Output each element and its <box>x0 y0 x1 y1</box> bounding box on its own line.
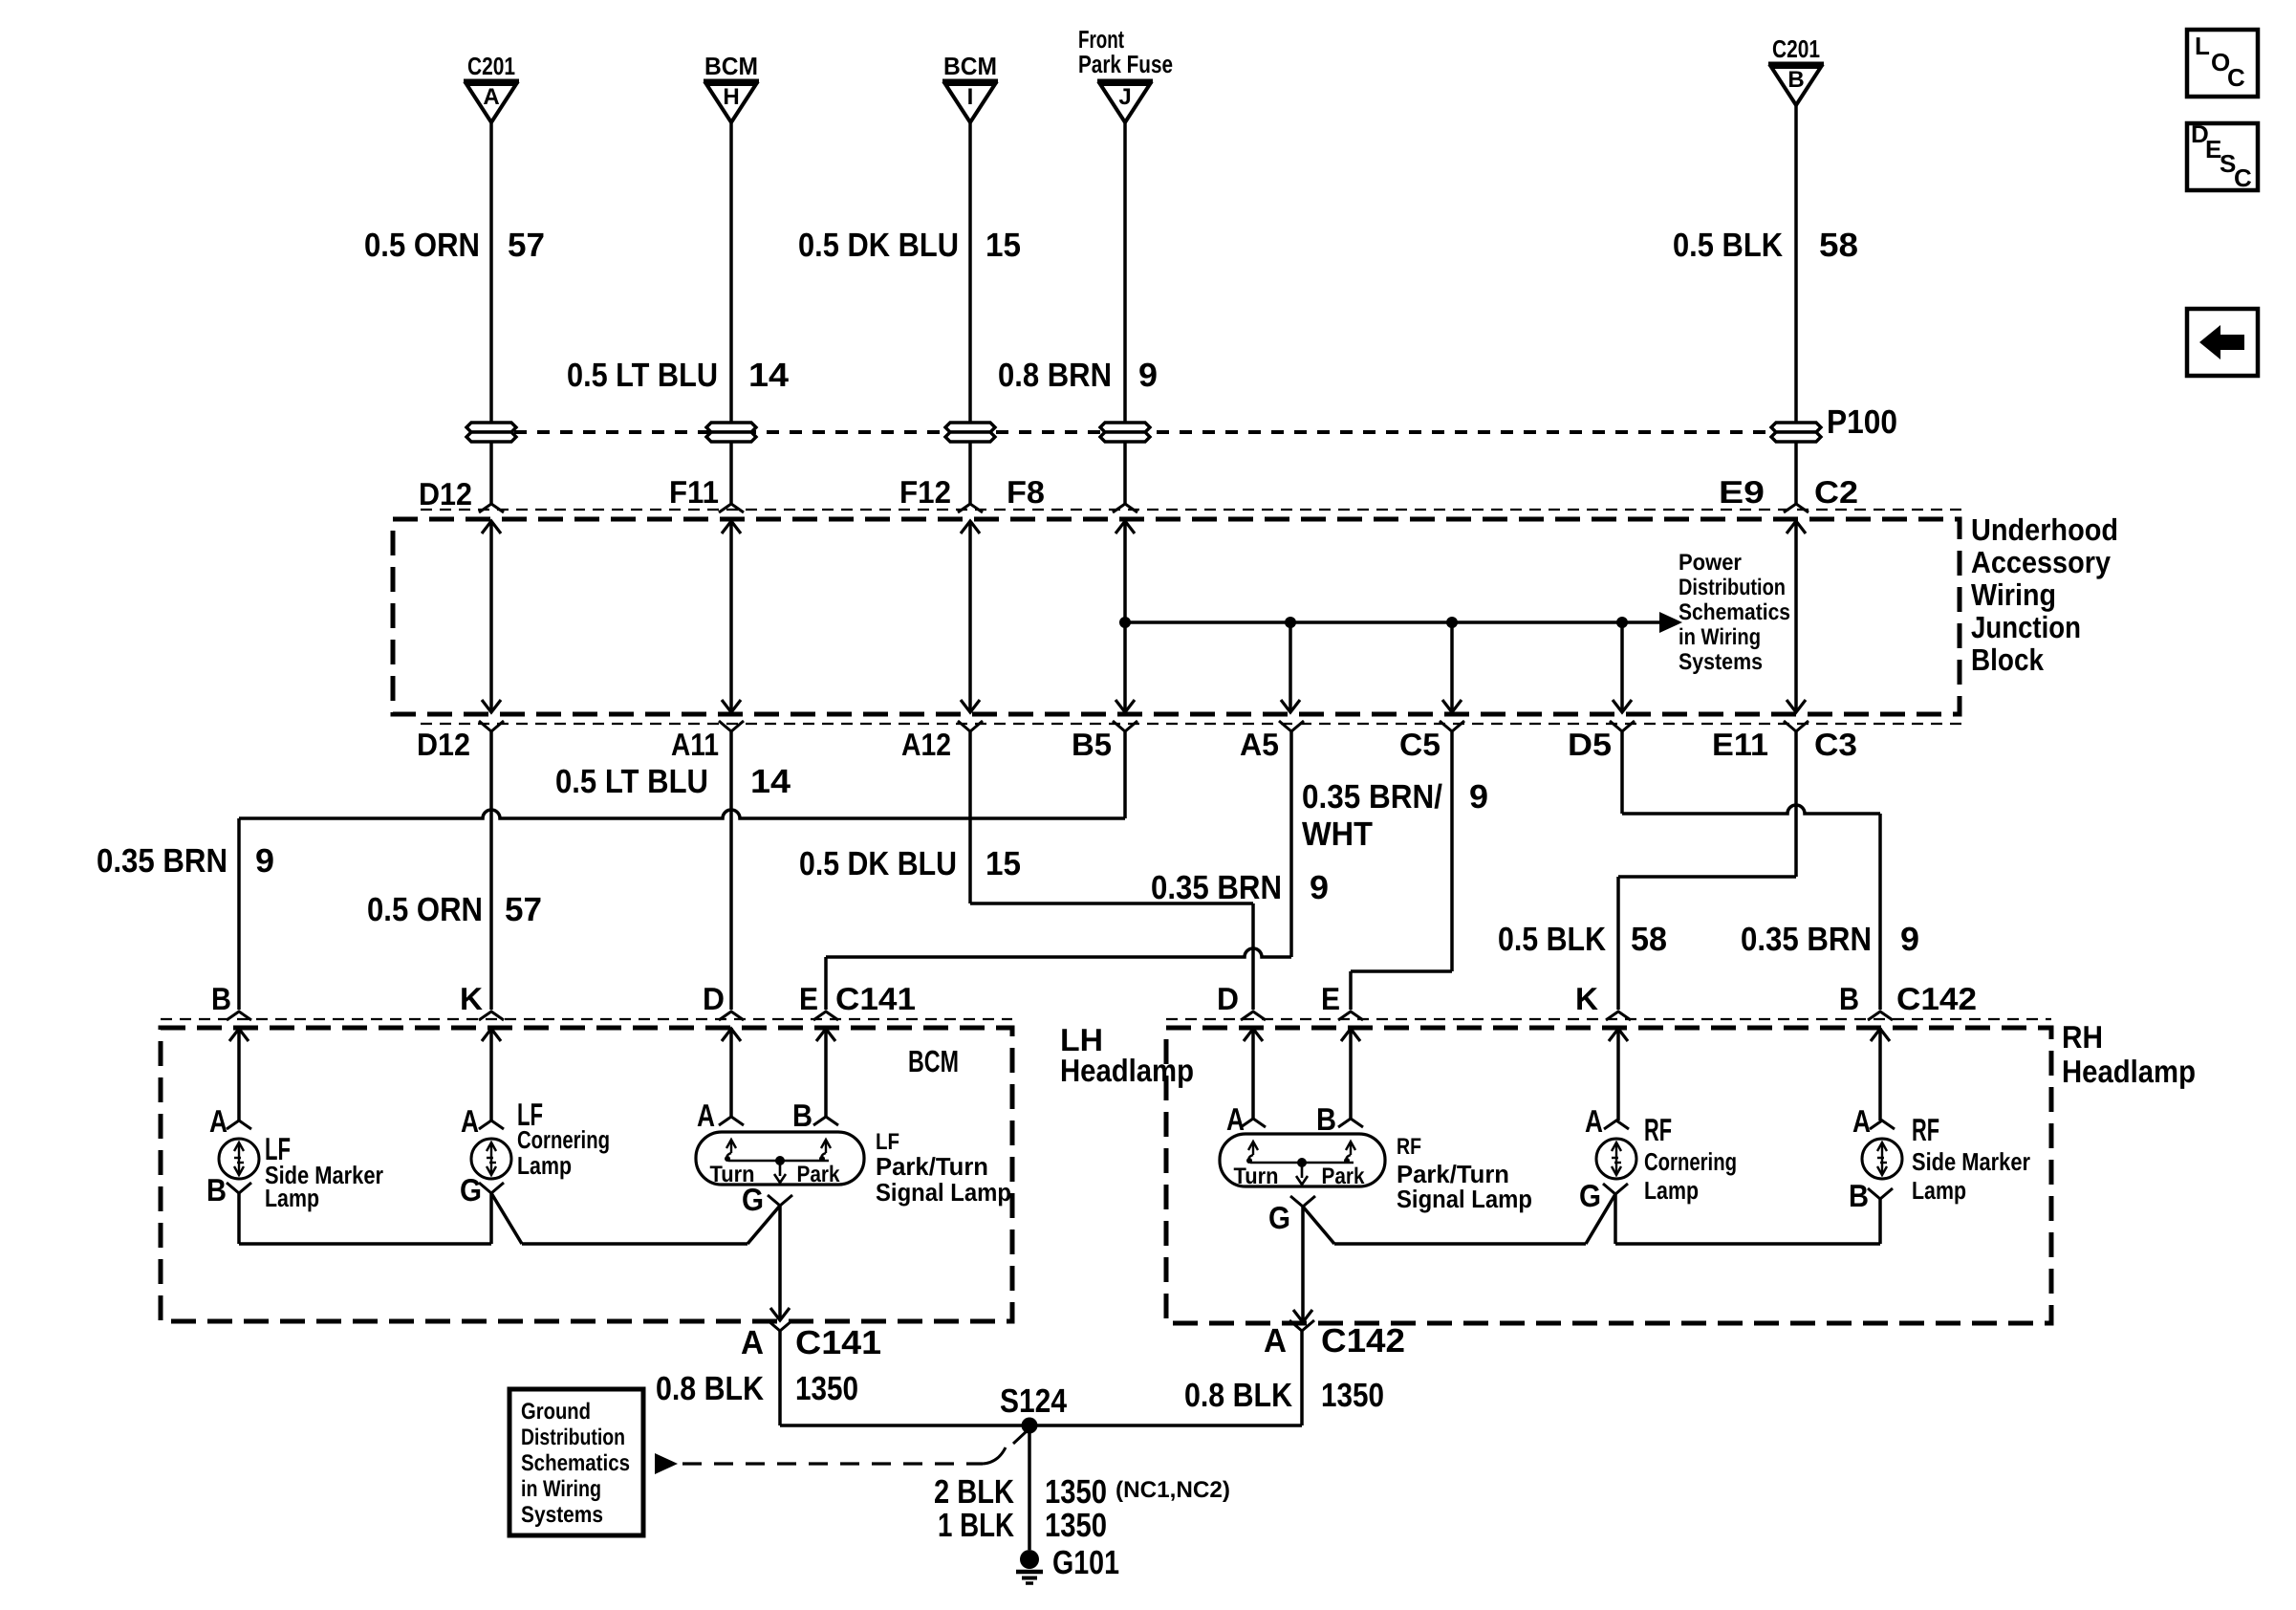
svg-text:BCM: BCM <box>908 1044 959 1078</box>
svg-text:F12: F12 <box>899 474 951 510</box>
junction block top connector dashed line <box>421 509 1963 511</box>
svg-text:A5: A5 <box>1240 727 1279 762</box>
svg-text:Wiring: Wiring <box>1971 577 2056 612</box>
wire 0.8 BLK 1350 from C141-A to S124 <box>780 1331 1029 1425</box>
svg-text:C2: C2 <box>1814 474 1858 510</box>
junction dot C5 <box>1446 617 1458 628</box>
svg-text:K: K <box>460 981 483 1016</box>
svg-text:RH: RH <box>2062 1019 2103 1055</box>
svg-text:I: I <box>967 84 974 110</box>
svg-text:Distribution: Distribution <box>521 1425 625 1450</box>
connector chevron at cavity B5 (block bottom) <box>1113 721 1137 731</box>
svg-text:9: 9 <box>1310 869 1329 906</box>
LOC button box <box>2187 30 2258 97</box>
wire 1 BLK 1350 from S124 to G101 <box>1028 1425 1031 1550</box>
svg-text:LF: LF <box>876 1129 899 1155</box>
LH ground bus wiring <box>239 1193 780 1244</box>
svg-text:Headlamp: Headlamp <box>2062 1054 2196 1089</box>
svg-text:0.5 LT BLU: 0.5 LT BLU <box>567 357 718 394</box>
svg-text:B: B <box>792 1098 812 1133</box>
wire 0.5 DK BLU 15 from BCM-I to P100 <box>968 122 972 422</box>
label 0.5 BLK 58 (mid) <box>1498 921 1667 958</box>
junction block feed-through F8-B5 <box>1116 521 1135 712</box>
connector chevron at cavity D5 (block bottom) <box>1610 721 1635 731</box>
connector chevron at cavity E11 (block bottom) <box>1784 721 1809 731</box>
connector C201 cavity A (triangle) <box>464 52 519 122</box>
svg-text:9: 9 <box>255 842 274 880</box>
svg-text:F11: F11 <box>669 474 719 510</box>
svg-text:B: B <box>1849 1178 1869 1213</box>
svg-text:0.5 DK BLU: 0.5 DK BLU <box>798 227 959 264</box>
wire 0.5 DK BLU 15 A12 to RH headlamp D <box>970 731 1253 1010</box>
label 0.5 LT BLU 14 <box>567 357 790 394</box>
label 2 BLK 1350 (NC1,NC2) <box>934 1473 1230 1511</box>
ground distribution reference dashed pointer to S124 <box>655 1431 1027 1474</box>
svg-text:A: A <box>461 1103 479 1139</box>
svg-text:C141: C141 <box>835 981 916 1016</box>
svg-text:B: B <box>1787 67 1804 93</box>
svg-text:B: B <box>1839 981 1859 1016</box>
svg-text:Underhood: Underhood <box>1971 512 2118 547</box>
svg-text:C201: C201 <box>1772 34 1820 63</box>
connector chevron at cavity F8 <box>1113 504 1137 512</box>
svg-text:E: E <box>1321 981 1340 1016</box>
connector chevron C141-E <box>813 1012 838 1020</box>
junction block feed-through E9-E11 <box>1787 521 1806 712</box>
svg-text:Systems: Systems <box>521 1502 603 1528</box>
Ground Distribution Schematics note box <box>509 1389 643 1535</box>
svg-text:C142: C142 <box>1321 1322 1405 1360</box>
svg-text:1 BLK: 1 BLK <box>938 1507 1014 1544</box>
RF Side Marker Lamp <box>1849 1103 2030 1213</box>
connector chevron at cavity A11 (block bottom) <box>719 721 744 731</box>
junction block feed-through D12 <box>482 521 501 712</box>
svg-text:58: 58 <box>1819 227 1858 264</box>
svg-text:9: 9 <box>1469 778 1488 816</box>
svg-text:0.35 BRN/: 0.35 BRN/ <box>1302 778 1442 816</box>
wire into junction block cavity E9 <box>1794 443 1798 504</box>
connector chevron at cavity D12 (block bottom) <box>479 721 504 731</box>
junction dot D5 <box>1616 617 1628 628</box>
connector BCM cavity H (triangle) <box>704 52 759 122</box>
svg-text:Side Marker: Side Marker <box>1912 1147 2030 1176</box>
label 0.35 BRN/ WHT 9 (C5) <box>1302 778 1488 853</box>
connector chevron C141-D <box>719 1012 744 1020</box>
P100 grommet on wire I <box>945 423 995 432</box>
svg-text:(NC1,NC2): (NC1,NC2) <box>1116 1477 1230 1503</box>
P100 grommet on wire H <box>706 423 756 432</box>
svg-text:Ground: Ground <box>521 1399 591 1425</box>
svg-text:RF: RF <box>1912 1112 1939 1147</box>
wire 0.8 BLK 1350 from C142-A to S124 <box>1029 1331 1302 1425</box>
svg-text:Schematics: Schematics <box>1679 599 1790 625</box>
connector chevron C142-E <box>1338 1012 1363 1020</box>
svg-text:9: 9 <box>1138 357 1158 394</box>
C141 connector dashed line <box>161 1018 1012 1020</box>
svg-text:E9: E9 <box>1719 474 1765 510</box>
label 0.8 BLK 1350 (RH) <box>1184 1377 1384 1414</box>
connector chevron C142-K <box>1606 1012 1631 1020</box>
svg-text:1350: 1350 <box>1045 1473 1107 1511</box>
svg-text:C141: C141 <box>795 1324 881 1361</box>
svg-text:H: H <box>723 84 739 110</box>
label 1 BLK 1350 <box>938 1507 1107 1544</box>
connector chevron C141-A <box>768 1320 792 1331</box>
svg-text:9: 9 <box>1900 921 1919 958</box>
wire 0.5 LT BLU 14 from BCM-H to P100 <box>729 122 733 422</box>
label Underhood Accessory Wiring Junction Block <box>1971 512 2118 677</box>
wire 0.5 ORN 57 D12 to LH headlamp K <box>489 731 493 1010</box>
junction block bottom connector dashed line <box>421 723 1963 725</box>
wire into headlamp box (LH D wire) <box>722 1028 741 1117</box>
RH ground bus wiring <box>1303 1194 1880 1244</box>
label 0.35 BRN 9 (A5) <box>1151 869 1329 906</box>
connector chevron C142-A <box>1289 1320 1314 1331</box>
label RH Headlamp <box>2062 1019 2196 1089</box>
LF Cornering Lamp <box>460 1097 610 1207</box>
LF Park/Turn Signal Lamp <box>696 1098 1011 1217</box>
wire into junction block cavity D12 <box>489 443 493 504</box>
label LH Headlamp <box>1060 1022 1194 1088</box>
note Power Distribution Schematics in Wiring Systems <box>1679 550 1790 675</box>
back arrow button <box>2187 309 2258 376</box>
wire into headlamp box (LH B wire) <box>229 1028 249 1120</box>
junction dot at F8/B5 bus <box>1119 617 1131 628</box>
wire 0.5 LT BLU 14 A11 to LH headlamp D <box>729 731 733 1010</box>
wire into junction block cavity F12 <box>968 443 972 504</box>
label 0.5 LT BLU 14 (mid) <box>555 763 791 800</box>
label 0.35 BRN 9 (D5) <box>1741 921 1919 958</box>
connector chevron at cavity E9 <box>1784 504 1809 512</box>
svg-text:A: A <box>1264 1322 1287 1360</box>
label 0.35 BRN 9 (left) <box>97 842 274 880</box>
svg-text:Lamp: Lamp <box>1644 1176 1699 1205</box>
wire into headlamp box (RH B wire) <box>1871 1028 1890 1120</box>
wire into headlamp box (RH K wire) <box>1609 1028 1628 1120</box>
svg-text:A: A <box>483 84 499 110</box>
svg-text:Lamp: Lamp <box>1912 1176 1966 1205</box>
wire 0.35 BRN/WHT 9 C5 to RH headlamp E <box>1351 731 1452 1010</box>
svg-text:0.5 BLK: 0.5 BLK <box>1498 921 1606 958</box>
P100 grommet on wire A <box>466 423 516 432</box>
svg-text:WHT: WHT <box>1302 816 1373 853</box>
svg-text:0.5 ORN: 0.5 ORN <box>364 227 480 264</box>
RH ground drop to C142-A <box>1293 1207 1312 1322</box>
svg-text:Park: Park <box>797 1162 841 1187</box>
connector chevron at cavity F12 <box>958 504 983 512</box>
svg-text:in Wiring: in Wiring <box>1679 624 1761 650</box>
label 0.5 DK BLU 15 <box>798 227 1021 264</box>
connector chevron C141-B <box>227 1012 251 1020</box>
junction block feed-through F12-A12 <box>961 521 980 712</box>
P100 grommet on wire J <box>1100 423 1150 432</box>
svg-text:RF: RF <box>1644 1112 1672 1147</box>
svg-text:C142: C142 <box>1896 981 1977 1016</box>
svg-text:15: 15 <box>986 227 1021 264</box>
connector chevron C142-D <box>1241 1012 1266 1020</box>
svg-text:Signal Lamp: Signal Lamp <box>1397 1185 1532 1213</box>
label A C141 <box>741 1324 881 1361</box>
svg-text:Park/Turn: Park/Turn <box>876 1152 988 1181</box>
svg-text:1350: 1350 <box>1321 1377 1384 1414</box>
svg-text:Block: Block <box>1971 642 2044 677</box>
svg-text:K: K <box>1575 981 1598 1016</box>
svg-text:Distribution: Distribution <box>1679 575 1786 600</box>
LF Side Marker Lamp <box>206 1103 383 1212</box>
RF Park/Turn Signal Lamp <box>1220 1101 1532 1235</box>
svg-text:0.5 DK BLU: 0.5 DK BLU <box>799 845 957 882</box>
svg-text:0.5 BLK: 0.5 BLK <box>1673 227 1783 264</box>
svg-text:Lamp: Lamp <box>265 1184 319 1212</box>
svg-text:Schematics: Schematics <box>521 1450 630 1476</box>
svg-text:C: C <box>2227 63 2245 92</box>
svg-text:A: A <box>1585 1103 1603 1139</box>
junction dot A5 <box>1285 617 1296 628</box>
svg-text:B: B <box>206 1172 227 1207</box>
wire 0.5 ORN 57 from C201-A to P100 <box>489 122 493 422</box>
svg-text:B5: B5 <box>1072 727 1112 762</box>
wire 0.5 BLK 58 E11 to RH headlamp K (cornering feed) <box>1618 731 1796 1010</box>
svg-text:0.35 BRN: 0.35 BRN <box>97 842 227 880</box>
label 0.5 BLK 58 <box>1673 227 1858 264</box>
svg-text:Systems: Systems <box>1679 649 1763 675</box>
DESC button box <box>2187 120 2258 192</box>
label 0.5 ORN 57 (mid) <box>367 891 542 928</box>
svg-text:A: A <box>697 1098 715 1133</box>
connector BCM cavity I (triangle) <box>942 52 998 122</box>
connector chevron at cavity A5 (block bottom) <box>1279 721 1304 731</box>
svg-text:D12: D12 <box>419 476 472 511</box>
wire 0.8 BRN 9 from Front Park Fuse to P100 <box>1123 122 1127 422</box>
P100 dashed pass-through line <box>491 430 1796 434</box>
svg-text:1350: 1350 <box>1045 1507 1107 1544</box>
svg-text:Park Fuse: Park Fuse <box>1078 50 1173 78</box>
wire into headlamp box (RH D wire) <box>1244 1028 1263 1119</box>
wire into junction block cavity F11 <box>729 443 733 504</box>
svg-text:58: 58 <box>1631 921 1667 958</box>
splice S124 <box>1022 1418 1038 1434</box>
svg-text:A: A <box>1226 1101 1245 1137</box>
wire 0.35 BRN 9 B5 to LH headlamp B (side marker feed) <box>239 731 1125 1010</box>
label A C142 <box>1264 1322 1405 1360</box>
connector chevron at cavity D12 <box>479 504 504 512</box>
svg-text:A: A <box>741 1324 764 1361</box>
connector chevron C141-K <box>479 1012 504 1020</box>
svg-text:E: E <box>799 981 818 1016</box>
svg-text:D: D <box>1217 981 1239 1016</box>
label 0.5 DK BLU 15 (mid) <box>799 845 1021 882</box>
svg-text:G: G <box>1268 1200 1290 1235</box>
svg-text:L: L <box>2195 32 2210 60</box>
svg-text:0.8 BLK: 0.8 BLK <box>656 1370 764 1407</box>
wire into headlamp box (LH K wire) <box>482 1028 501 1120</box>
svg-text:1350: 1350 <box>795 1370 858 1407</box>
svg-text:Turn: Turn <box>1234 1164 1279 1189</box>
label 0.5 ORN 57 <box>364 227 545 264</box>
connector chevron at cavity A12 (block bottom) <box>958 721 983 731</box>
svg-text:Lamp: Lamp <box>517 1151 572 1180</box>
svg-text:0.35 BRN: 0.35 BRN <box>1741 921 1872 958</box>
label 0.8 BLK 1350 (LH) <box>656 1370 858 1407</box>
P100 grommet on wire B <box>1771 423 1821 432</box>
svg-text:15: 15 <box>986 845 1021 882</box>
svg-text:Cornering: Cornering <box>517 1125 610 1154</box>
svg-text:0.8 BLK: 0.8 BLK <box>1184 1377 1292 1414</box>
svg-text:14: 14 <box>750 763 791 800</box>
LH ground drop to C141-A <box>770 1206 790 1320</box>
connector C201 cavity B (triangle) <box>1768 34 1824 105</box>
svg-text:A: A <box>209 1103 227 1139</box>
svg-text:D: D <box>703 981 725 1016</box>
wire into junction block cavity F8 <box>1123 443 1127 504</box>
svg-text:E11: E11 <box>1712 727 1768 762</box>
svg-text:57: 57 <box>505 891 542 928</box>
svg-text:B: B <box>211 981 231 1016</box>
svg-text:C5: C5 <box>1399 727 1440 762</box>
wire into headlamp box (RH E wire) <box>1341 1028 1360 1119</box>
Front Park Fuse cavity J (triangle) <box>1078 25 1173 122</box>
svg-text:BCM: BCM <box>943 52 997 80</box>
svg-text:A11: A11 <box>671 727 719 762</box>
wire 0.35 BRN/WHT 9 A5 to LH headlamp E <box>826 731 1291 1010</box>
svg-text:Power: Power <box>1679 550 1742 576</box>
junction block internal bus to power distribution <box>1125 612 1682 633</box>
svg-text:0.5 LT BLU: 0.5 LT BLU <box>555 763 708 800</box>
svg-text:A12: A12 <box>901 727 951 762</box>
svg-text:Cornering: Cornering <box>1644 1147 1737 1176</box>
svg-text:Headlamp: Headlamp <box>1060 1053 1194 1088</box>
svg-text:0.35 BRN: 0.35 BRN <box>1151 869 1282 906</box>
svg-text:G101: G101 <box>1052 1544 1119 1581</box>
svg-text:BCM: BCM <box>704 52 758 80</box>
svg-text:2 BLK: 2 BLK <box>934 1473 1014 1511</box>
svg-text:G: G <box>460 1172 482 1207</box>
svg-text:B: B <box>1316 1101 1336 1137</box>
svg-text:S124: S124 <box>1000 1382 1067 1420</box>
svg-text:Accessory: Accessory <box>1971 545 2111 579</box>
svg-text:57: 57 <box>508 227 545 264</box>
wire 0.35 BRN 9 D5 to RH headlamp B (side marker feed) <box>1622 731 1880 1010</box>
connector chevron at cavity C5 (block bottom) <box>1440 721 1464 731</box>
junction block branch to D5 <box>1613 622 1632 712</box>
wire 0.5 BLK 58 from C201-B to P100 <box>1794 105 1798 422</box>
connector chevron C142-B <box>1868 1012 1893 1020</box>
junction block feed-through F11-A11 <box>722 521 741 712</box>
svg-text:D5: D5 <box>1568 727 1612 762</box>
svg-text:C201: C201 <box>467 52 515 80</box>
svg-text:G: G <box>742 1182 764 1217</box>
svg-text:0.5 ORN: 0.5 ORN <box>367 891 483 928</box>
wire into headlamp box (LH E wire) <box>816 1028 835 1117</box>
C142 connector dashed line <box>1166 1018 2051 1020</box>
svg-text:14: 14 <box>748 357 790 394</box>
svg-text:C3: C3 <box>1814 727 1857 762</box>
RF Cornering Lamp <box>1579 1103 1737 1213</box>
svg-text:Junction: Junction <box>1971 610 2081 644</box>
svg-text:P100: P100 <box>1827 403 1897 441</box>
svg-text:RF: RF <box>1397 1134 1421 1160</box>
Underhood Accessory Wiring Junction Block dashed outline <box>393 519 1960 714</box>
ground G101 symbol <box>1016 1550 1043 1583</box>
RH Headlamp dashed box <box>1166 1028 2051 1323</box>
junction block branch to A5 <box>1281 622 1300 712</box>
svg-text:D12: D12 <box>417 727 470 762</box>
svg-text:J: J <box>1118 84 1131 110</box>
svg-text:G: G <box>1579 1178 1601 1213</box>
label 0.8 BRN 9 <box>998 357 1158 394</box>
svg-text:C: C <box>2234 163 2252 192</box>
connector chevron at cavity F11 <box>719 504 744 512</box>
svg-text:A: A <box>1852 1103 1871 1139</box>
svg-text:in Wiring: in Wiring <box>521 1476 601 1502</box>
svg-text:Park: Park <box>1322 1164 1366 1189</box>
LH Headlamp dashed box <box>161 1028 1012 1321</box>
svg-text:F8: F8 <box>1007 474 1045 510</box>
svg-text:Signal Lamp: Signal Lamp <box>876 1178 1011 1207</box>
junction block branch to C5 <box>1442 622 1462 712</box>
svg-text:0.8 BRN: 0.8 BRN <box>998 357 1112 394</box>
